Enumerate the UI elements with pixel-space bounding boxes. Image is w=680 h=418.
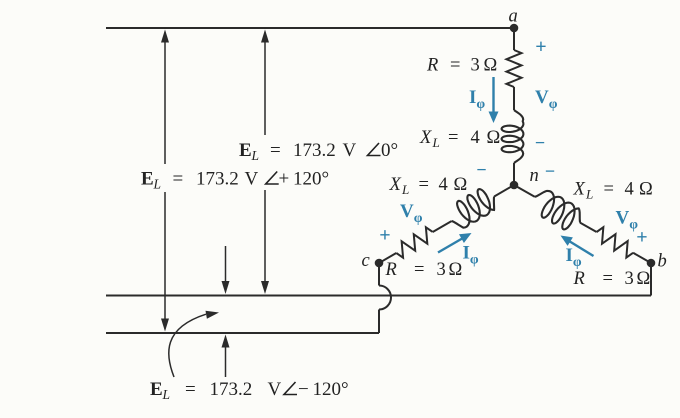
arrow shaft: small up arrow below bottom line xyxy=(225,346,227,377)
wire: node n to inductor (phase b) xyxy=(514,185,535,197)
svg-text:120°: 120° xyxy=(293,169,329,190)
wire: node a down to resistor xyxy=(513,28,515,50)
svg-text:Iφ: Iφ xyxy=(463,243,479,268)
current arrow I_phi (phase c) xyxy=(438,238,463,253)
wire: resistor to inductor (phase c) xyxy=(433,221,452,232)
svg-text:XL=4Ω: XL=4Ω xyxy=(573,180,653,202)
resistor R = 3 ohm (phase c) xyxy=(393,225,437,259)
wire: inductor to node n (phase c) xyxy=(494,185,514,197)
svg-text:R=3Ω: R=3Ω xyxy=(385,260,463,280)
curved arrow pointing between return lines xyxy=(169,314,206,377)
svg-text:EL=173.2V: EL=173.2V xyxy=(150,379,282,402)
wire: top line to node a xyxy=(106,27,514,29)
node a xyxy=(510,24,519,33)
wire: resistor to node b xyxy=(633,253,651,263)
svg-text:−: − xyxy=(535,133,545,153)
svg-text:c: c xyxy=(362,251,371,271)
svg-text:+: + xyxy=(636,227,647,249)
svg-text:n: n xyxy=(530,166,539,186)
arrow shaft lower (E_L +120) xyxy=(164,192,166,321)
svg-text:EL=173.2V: EL=173.2V xyxy=(239,140,357,163)
arrow down head, E_L 0 measure at middle line xyxy=(261,281,269,294)
svg-text:EL=173.2V: EL=173.2V xyxy=(141,169,259,192)
svg-text:+: + xyxy=(279,169,290,190)
resistor R = 3 ohm (phase b) xyxy=(593,225,637,259)
arrow shaft upper (E_L +120) xyxy=(164,41,166,164)
arrow shaft upper (E_L 0) xyxy=(264,41,266,135)
wire: node b down to middle return line xyxy=(650,263,652,296)
svg-text:XL=4Ω: XL=4Ω xyxy=(389,175,468,197)
svg-text:−: − xyxy=(545,161,555,181)
svg-text:+: + xyxy=(535,36,546,58)
wire: inductor to node n xyxy=(513,163,515,185)
small down arrow head at middle line xyxy=(222,281,230,294)
svg-text:120°: 120° xyxy=(313,379,349,400)
arrow shaft lower (E_L 0) xyxy=(264,190,266,283)
svg-text:Vφ: Vφ xyxy=(400,201,423,226)
svg-text:Vφ: Vφ xyxy=(535,87,558,112)
svg-text:+: + xyxy=(379,225,390,247)
svg-text:b: b xyxy=(658,252,667,272)
wire: resistor to inductor (phase a) xyxy=(513,87,515,110)
arrow down head, E_L +120 measure at bottom line xyxy=(161,319,169,332)
wire: middle return line xyxy=(106,295,651,297)
inductor X_L = 4 ohm (phase a) xyxy=(502,110,524,163)
node n xyxy=(510,181,519,190)
svg-text:−: − xyxy=(298,379,309,400)
svg-text:R=3Ω: R=3Ω xyxy=(426,56,497,76)
svg-text:R=3Ω: R=3Ω xyxy=(573,269,651,289)
arrow up head, E_L 0 measure at top line xyxy=(261,30,269,43)
resistor R = 3 ohm (phase a) xyxy=(507,50,522,87)
wire: bottom return line xyxy=(106,332,379,334)
svg-text:a: a xyxy=(509,7,518,27)
wire: node c down to hop xyxy=(378,263,380,286)
arrow up head, E_L +120 measure at top line xyxy=(161,30,169,43)
current arrow I_phi (phase a) xyxy=(492,77,494,114)
node c xyxy=(375,259,384,268)
inductor X_L = 4 ohm (phase c) xyxy=(445,184,501,231)
svg-text:XL=4Ω: XL=4Ω xyxy=(419,128,500,150)
wire: hop of c branch over middle line xyxy=(379,286,391,310)
svg-text:0°: 0° xyxy=(381,140,398,161)
svg-text:Iφ: Iφ xyxy=(469,87,485,112)
arrow shaft: small down arrow above middle line xyxy=(225,246,227,283)
svg-text:−: − xyxy=(476,160,486,180)
wire: node c to resistor (phase c) xyxy=(379,253,396,263)
inductor X_L = 4 ohm (phase b) xyxy=(528,186,586,235)
wire: inductor to resistor (phase b) xyxy=(580,223,597,232)
svg-text:Vφ: Vφ xyxy=(616,208,639,233)
current arrow I_phi (phase b) xyxy=(569,241,594,256)
wire: hop to bottom line xyxy=(378,310,380,334)
small up arrow head at bottom line xyxy=(222,335,230,348)
node b xyxy=(647,259,656,268)
